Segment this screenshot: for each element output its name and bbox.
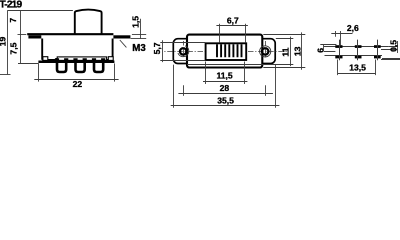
dimension 6,7: extension lines down to slot bbox=[220, 24, 246, 43]
extension line base bottom bbox=[18, 63, 39, 65]
svg-text:7,5: 7,5 bbox=[8, 42, 18, 54]
dimension line 6 bbox=[323, 44, 325, 51]
left mounting tab bbox=[28, 35, 41, 38]
svg-text:2,6: 2,6 bbox=[347, 23, 359, 33]
flange plate outline bbox=[173, 39, 275, 64]
right hole centerline vertical bbox=[265, 41, 267, 58]
right corner notch bbox=[108, 57, 113, 61]
dimension 13 extension lines bbox=[263, 35, 305, 68]
left screw hole bbox=[180, 48, 186, 54]
dimension line 11 bbox=[290, 37, 292, 67]
dimension 11 extension lines bbox=[187, 39, 293, 65]
centerline (dash-dot) bbox=[162, 51, 288, 53]
extension lines 35,5 bbox=[174, 65, 276, 108]
dimension line 28 bbox=[178, 93, 273, 95]
terminal pin 1 bbox=[57, 58, 66, 72]
svg-text:13,5: 13,5 bbox=[349, 63, 366, 73]
dimension line 0,5 bbox=[397, 41, 399, 53]
svg-text:0,5: 0,5 bbox=[388, 40, 398, 52]
row 2 pad 3 bbox=[374, 56, 381, 59]
row 1 pad 2 bbox=[355, 45, 362, 48]
dimension line 1,5 bbox=[140, 19, 142, 39]
row 2 line bbox=[325, 55, 383, 57]
left screw hole chamfer bbox=[178, 46, 189, 57]
svg-text:11: 11 bbox=[281, 47, 291, 56]
slot opening bbox=[206, 43, 247, 60]
dimension line 7,5 (body height) bbox=[20, 35, 22, 64]
svg-text:13: 13 bbox=[292, 46, 302, 56]
dimension line 7 (knob height) bbox=[20, 10, 22, 34]
extension line top (knob top level) bbox=[8, 10, 73, 12]
dimension line 11,5 bbox=[203, 81, 247, 83]
svg-text:1,5: 1,5 bbox=[131, 16, 141, 28]
cover left edge bbox=[41, 39, 43, 60]
dimension line 5,7 bbox=[162, 40, 164, 62]
pin centerline ticks bbox=[340, 40, 378, 61]
inner base plate bbox=[57, 57, 106, 61]
svg-text:5,7: 5,7 bbox=[152, 42, 162, 54]
dimension line 13,5 bbox=[338, 73, 376, 75]
actuator knob bbox=[75, 10, 102, 34]
svg-text:35,5: 35,5 bbox=[217, 95, 234, 105]
dimension 1,5 extension bottom bbox=[131, 38, 147, 40]
right screw hole bbox=[262, 48, 268, 54]
svg-text:7: 7 bbox=[8, 18, 18, 23]
cover right edge bbox=[112, 39, 114, 60]
cover band outline bbox=[187, 35, 262, 68]
extension line bottom of 19 bbox=[0, 74, 11, 76]
svg-text:11,5: 11,5 bbox=[216, 70, 232, 80]
flange top edge bbox=[27, 33, 113, 35]
svg-text:19: 19 bbox=[0, 37, 7, 47]
svg-text:6,7: 6,7 bbox=[227, 16, 239, 26]
left hole centerline vertical bbox=[183, 41, 185, 58]
extension lines 28 (hole centers) bbox=[184, 85, 266, 96]
ticks 2,6 bbox=[336, 31, 341, 45]
extension lines 13,5 bbox=[338, 60, 376, 76]
terminal pin 3 bbox=[94, 58, 103, 72]
cover bottom seam bbox=[42, 59, 113, 61]
dimension 5,7 extension lines bbox=[164, 43, 205, 61]
svg-text:T-219: T-219 bbox=[0, 0, 22, 11]
dimension line 19 (overall height) bbox=[7, 10, 9, 74]
knob serrations bbox=[217, 44, 242, 57]
svg-text:28: 28 bbox=[220, 83, 230, 93]
extension lines 22 bbox=[39, 63, 115, 81]
tick marks 5,7 bbox=[160, 43, 164, 61]
left corner notch bbox=[43, 57, 48, 61]
0,5 extension lines bbox=[381, 47, 400, 60]
row 1 pad 3 bbox=[374, 45, 381, 48]
pin roots through base plate bbox=[57, 58, 103, 60]
terminal pin 2 bbox=[76, 58, 85, 72]
svg-text:22: 22 bbox=[73, 79, 83, 89]
dimension 1,5 extension top bbox=[132, 34, 146, 36]
row 1 pad 1 bbox=[335, 45, 342, 48]
leader line M3 bbox=[120, 40, 127, 47]
extension lines 11,5 bbox=[206, 62, 245, 85]
dimension line 35,5 bbox=[171, 105, 280, 107]
extension line flange top level bbox=[18, 34, 27, 36]
svg-text:M3: M3 bbox=[132, 43, 146, 54]
base wafer bbox=[38, 61, 114, 64]
dimension line 13 bbox=[301, 32, 303, 69]
dimension line 22 bbox=[34, 79, 118, 81]
row 2 pad 2 bbox=[355, 56, 362, 59]
extension lines 6 bbox=[320, 45, 336, 52]
dimension line 6,7 bbox=[216, 25, 248, 27]
dimension line 2,6 bbox=[331, 33, 352, 35]
right screw hole chamfer bbox=[260, 46, 271, 57]
row 2 pad 1 bbox=[335, 56, 342, 59]
row 1 line bbox=[324, 46, 388, 48]
right mounting tab bbox=[113, 35, 130, 38]
